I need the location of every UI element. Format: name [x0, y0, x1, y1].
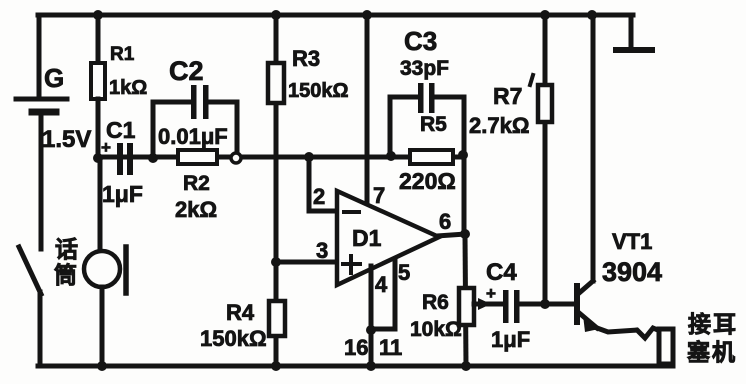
- svg-text:1.5V: 1.5V: [42, 126, 91, 153]
- node dot R1-C1: [93, 153, 103, 163]
- wire signal row: [98, 155, 464, 160]
- battery G bottom lead: [39, 115, 44, 249]
- node dot rail mic: [97, 361, 107, 371]
- wire C2 top edge: [153, 100, 192, 105]
- stray tick above R7: [530, 75, 533, 85]
- wire mic top lead: [98, 158, 103, 252]
- battery G top lead: [37, 15, 42, 96]
- wire pin2: [309, 157, 339, 211]
- wire rail right drop to ground: [629, 15, 634, 49]
- transistor Q1 collector diagonal: [578, 281, 593, 294]
- node ring R2 right: [231, 153, 241, 163]
- svg-text:R6: R6: [422, 291, 449, 314]
- wire collector vertical: [591, 15, 596, 281]
- transistor Q1 emitter: [578, 312, 597, 328]
- svg-text:R5: R5: [420, 113, 447, 136]
- capacitor C2 box left edge: [151, 102, 156, 158]
- svg-text:筒: 筒: [54, 262, 77, 288]
- battery G short plate: [32, 109, 56, 116]
- wire C2 top edge right: [207, 100, 237, 105]
- svg-text:D1: D1: [352, 225, 382, 251]
- op-amp minus: [344, 210, 359, 214]
- svg-text:C2: C2: [169, 56, 204, 86]
- svg-text:2kΩ: 2kΩ: [175, 197, 217, 222]
- svg-text:+: +: [486, 284, 496, 303]
- svg-text:6: 6: [439, 209, 451, 234]
- transistor Q1 base bar: [574, 286, 580, 322]
- node dot C3 left: [386, 151, 396, 161]
- node dot rail R4: [271, 361, 281, 371]
- wire mic bottom lead: [100, 287, 105, 366]
- svg-text:VT1: VT1: [612, 229, 652, 254]
- ground: [616, 47, 652, 53]
- svg-text:C3: C3: [404, 26, 437, 56]
- svg-text:11: 11: [379, 335, 402, 360]
- transistor Q1 emitter arrow: [583, 315, 599, 332]
- svg-text:G: G: [44, 63, 64, 93]
- svg-text:4: 4: [375, 272, 388, 297]
- svg-text:3904: 3904: [602, 257, 662, 287]
- capacitor C3: [418, 83, 435, 113]
- svg-text:7: 7: [373, 183, 385, 208]
- node dot top pin7: [362, 10, 372, 20]
- node dot top R3: [271, 10, 281, 20]
- wire R3 R4 vertical: [274, 15, 279, 366]
- resistor R2: [178, 150, 217, 164]
- wire bottom rail: [38, 364, 673, 369]
- switch blade: [19, 247, 41, 294]
- wire switch to bottom rail: [38, 292, 43, 366]
- node dot top R7: [540, 10, 550, 20]
- wire C3 top edge right: [434, 95, 464, 100]
- node dot pin4-5: [366, 325, 376, 335]
- node dot pin3 branch: [271, 257, 281, 267]
- capacitor C1: [117, 143, 133, 175]
- node dot C2 left: [148, 153, 158, 163]
- svg-text:R3: R3: [292, 46, 320, 71]
- resistor R5: [410, 150, 453, 164]
- node dot rail pin11: [366, 361, 376, 371]
- svg-text:话: 话: [55, 236, 78, 262]
- wire emitter to jack: [597, 328, 660, 338]
- resistor R6: [459, 288, 474, 325]
- node dot C4-R7-base: [540, 299, 550, 309]
- resistor R7: [538, 85, 552, 122]
- svg-text:接耳: 接耳: [688, 311, 738, 337]
- node dot top collector: [587, 10, 597, 20]
- wire pin3: [276, 260, 339, 265]
- wire pin7: [365, 15, 370, 208]
- svg-text:1μF: 1μF: [102, 181, 143, 207]
- wire R1 bottom lead: [96, 99, 101, 158]
- svg-text:1μF: 1μF: [491, 327, 530, 352]
- node dot pin2 branch: [304, 152, 314, 162]
- svg-text:33pF: 33pF: [400, 57, 449, 80]
- svg-text:塞机: 塞机: [687, 339, 737, 365]
- node dot C3 right: [458, 150, 468, 160]
- svg-text:+: +: [101, 138, 111, 157]
- wire R7 vertical: [543, 15, 548, 304]
- wire R6 vertical: [465, 234, 466, 366]
- wire top rail: [38, 13, 633, 18]
- C4 polarity arrow: [478, 298, 491, 310]
- microphone: [84, 251, 120, 287]
- capacitor C2: [191, 85, 209, 119]
- op-amp D1: [337, 191, 439, 285]
- svg-text:220Ω: 220Ω: [399, 168, 456, 194]
- battery G long plate: [16, 97, 67, 102]
- svg-text:0.01μF: 0.01μF: [158, 124, 228, 149]
- svg-text:C4: C4: [486, 259, 517, 286]
- resistor R1: [91, 63, 105, 99]
- wire pin4: [369, 266, 374, 330]
- svg-text:1kΩ: 1kΩ: [109, 77, 147, 99]
- node dot top R1: [93, 10, 103, 20]
- wire R1 top lead: [96, 15, 101, 66]
- svg-text:150kΩ: 150kΩ: [200, 326, 267, 351]
- svg-text:R1: R1: [110, 44, 135, 65]
- svg-text:3: 3: [316, 238, 328, 263]
- svg-text:R2: R2: [183, 172, 210, 195]
- op-amp plus: [343, 256, 360, 273]
- wire C2 box right edge: [235, 102, 240, 156]
- svg-text:R4: R4: [226, 300, 255, 325]
- resistor R4: [269, 301, 285, 336]
- wire C3 right edge down to pin6: [462, 97, 467, 234]
- svg-text:16: 16: [344, 335, 368, 360]
- wire C3 top edge: [390, 95, 418, 100]
- wire C4 to base: [519, 302, 576, 307]
- wire base row from R6 to C4: [474, 302, 503, 307]
- svg-text:R7: R7: [493, 83, 522, 109]
- capacitor C4: [503, 290, 520, 323]
- svg-text:5: 5: [398, 260, 410, 285]
- svg-text:2.7kΩ: 2.7kΩ: [469, 113, 529, 138]
- capacitor C3 box left edge: [388, 97, 393, 156]
- wire pin6 output: [437, 234, 465, 236]
- microphone bar: [123, 247, 129, 293]
- svg-text:150kΩ: 150kΩ: [288, 80, 349, 102]
- svg-text:10kΩ: 10kΩ: [410, 318, 462, 341]
- earphone jack: [659, 329, 673, 364]
- node dot pin6: [460, 229, 470, 239]
- svg-text:2: 2: [313, 184, 325, 209]
- wire pin4 to bottom rail: [369, 330, 374, 366]
- node dot rail R6: [461, 361, 471, 371]
- wire pin5: [372, 259, 395, 329]
- resistor R3: [268, 63, 284, 103]
